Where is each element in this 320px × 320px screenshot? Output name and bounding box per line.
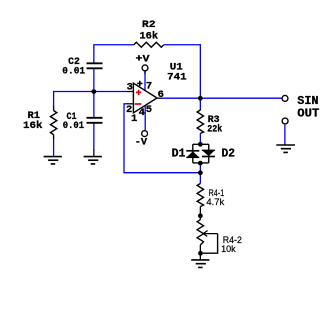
wire: [94, 45, 134, 64]
ground R4-2: [191, 260, 209, 268]
wire pin4: [144, 105, 146, 131]
svg-text:0.01: 0.01: [63, 120, 84, 132]
wire: [93, 68, 95, 91]
wire: [199, 133, 201, 143]
svg-text:16k: 16k: [139, 31, 158, 43]
node diode bottom: [198, 161, 203, 166]
terminal -V: [142, 131, 148, 137]
svg-text:6: 6: [158, 89, 164, 101]
capacitor C1: [87, 118, 103, 123]
capacitor C2: [87, 63, 103, 68]
wire: [199, 245, 201, 259]
svg-text:+V: +V: [136, 54, 151, 66]
wire output stub: [157, 97, 162, 99]
svg-text:OUT: OUT: [297, 106, 319, 120]
ground C1: [84, 157, 102, 164]
ground SIN OUT: [276, 145, 295, 152]
svg-text:741: 741: [167, 72, 186, 84]
svg-text:D2: D2: [222, 147, 236, 161]
potentiometer R4-2 wiper bracket: [203, 234, 218, 254]
wire feedback: [124, 104, 200, 173]
svg-text:D1: D1: [172, 147, 186, 161]
resistor R2: [134, 42, 164, 47]
node A: [91, 89, 96, 94]
resistor R1: [53, 106, 55, 111]
svg-text:16k: 16k: [23, 120, 43, 132]
svg-text:0.01: 0.01: [62, 66, 85, 78]
wire: [164, 45, 201, 109]
wire: [53, 140, 55, 156]
wire: [199, 164, 201, 184]
node R4: [198, 213, 203, 218]
svg-text:3: 3: [127, 81, 133, 93]
svg-text:R2: R2: [142, 19, 156, 31]
wire: [54, 92, 127, 106]
op-amp minus input mark: [135, 103, 142, 105]
potentiometer R4-2: [197, 220, 203, 245]
svg-text:10k: 10k: [221, 244, 236, 254]
wire: [93, 124, 95, 150]
ground R1: [44, 157, 62, 164]
wire pin2 stub: [127, 103, 134, 105]
diode block rails: [193, 144, 209, 163]
node feedback: [198, 170, 203, 175]
wire output: [162, 97, 282, 99]
diode D2: [202, 149, 215, 151]
wire: [93, 92, 95, 118]
terminal +V: [142, 65, 148, 71]
svg-text:22k: 22k: [207, 124, 222, 136]
svg-text:4: 4: [139, 107, 145, 119]
svg-text:-V: -V: [135, 137, 148, 149]
wire: [93, 149, 95, 156]
node diode top: [198, 142, 203, 147]
op-amp U1 triangle: [133, 83, 157, 113]
svg-text:7: 7: [146, 80, 152, 92]
wire pin7: [144, 71, 146, 90]
node output: [198, 96, 203, 101]
wire: [284, 125, 286, 145]
resistor R4-1: [197, 184, 203, 207]
svg-text:4.7k: 4.7k: [206, 197, 224, 207]
pin 7 plus mark: [137, 81, 142, 86]
diode D1: [186, 150, 199, 152]
wire: [199, 207, 201, 220]
svg-text:5: 5: [146, 104, 152, 116]
wire: [144, 71, 146, 74]
resistor R3: [199, 109, 201, 110]
wire pin3 stub: [127, 91, 134, 93]
terminal OUT ground: [282, 118, 288, 124]
potentiometer R4-2 wiper arrow: [203, 231, 217, 237]
op-amp plus input mark: [136, 90, 141, 95]
node wiper: [198, 251, 203, 256]
terminal SIN: [282, 95, 288, 101]
svg-text:1: 1: [131, 113, 137, 125]
